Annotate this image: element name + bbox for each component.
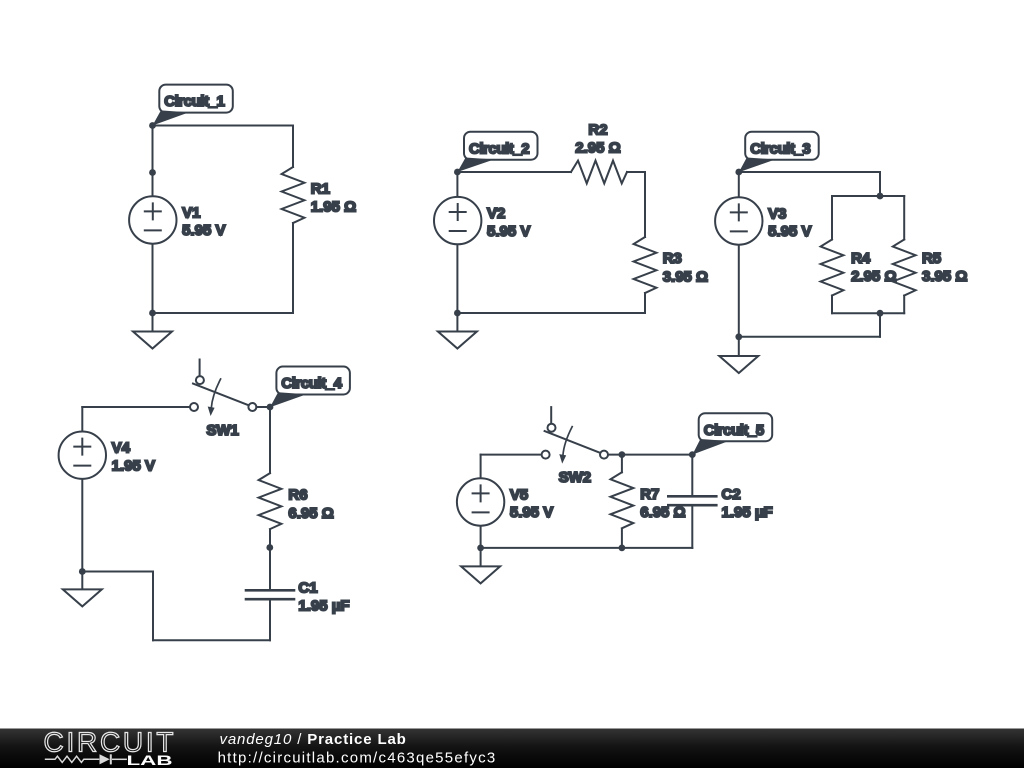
node A4 junction xyxy=(267,404,274,411)
wire right branch down xyxy=(644,172,646,237)
node label Circuit_4 xyxy=(270,367,350,408)
switch SW1 xyxy=(190,360,256,417)
wire left branch upper xyxy=(152,126,154,197)
junction xyxy=(735,333,742,340)
resistor R6 xyxy=(259,473,282,529)
junction xyxy=(689,451,696,458)
svg-text:http://circuitlab.com/c463qe55: http://circuitlab.com/c463qe55efyc3 xyxy=(218,749,497,766)
svg-text:5.95 V: 5.95 V xyxy=(487,223,530,240)
wire left branch upper c2 xyxy=(456,172,458,197)
voltage source V1 xyxy=(129,196,176,243)
voltage source V4 xyxy=(59,432,106,479)
wire V5 to switch xyxy=(481,454,542,456)
resistor R4 xyxy=(821,240,844,296)
junction xyxy=(149,310,156,317)
node label Circuit_5 xyxy=(692,413,772,454)
wire from parallel pair down xyxy=(879,313,881,337)
wire V5 bottom lead xyxy=(480,526,482,567)
svg-text:C1: C1 xyxy=(298,579,317,596)
svg-text:V1: V1 xyxy=(182,204,200,221)
svg-text:1.95 Ω: 1.95 Ω xyxy=(311,199,356,216)
wire return to V4 xyxy=(82,571,153,573)
svg-text:5.95 V: 5.95 V xyxy=(768,223,811,240)
switch SW2 xyxy=(542,407,608,464)
ground xyxy=(63,589,102,606)
resistor R3 xyxy=(634,237,657,293)
node A2 junction xyxy=(454,169,461,176)
svg-text:1.95 V: 1.95 V xyxy=(112,457,155,474)
svg-text:SW2: SW2 xyxy=(559,469,592,486)
svg-text:R1: R1 xyxy=(311,181,330,198)
wire feed down to parallel pair xyxy=(879,172,881,196)
svg-text:R7: R7 xyxy=(640,486,659,503)
svg-text:LAB: LAB xyxy=(127,752,173,768)
svg-text:C2: C2 xyxy=(722,486,741,503)
wire R4 bottom lead xyxy=(831,296,833,314)
svg-text:5.95 V: 5.95 V xyxy=(182,222,225,239)
wire R2 to corner xyxy=(627,171,645,173)
wire bottom rail circuit 4 xyxy=(153,639,270,641)
svg-text:1.95 µF: 1.95 µF xyxy=(722,504,773,521)
wire parallel top rail xyxy=(832,195,904,197)
voltage source V3 xyxy=(715,197,762,244)
svg-text:Circuit_4: Circuit_4 xyxy=(281,375,342,392)
wire switch to node xyxy=(256,406,270,408)
resistor R1 xyxy=(282,167,305,223)
svg-text:V2: V2 xyxy=(487,205,505,222)
svg-text:V5: V5 xyxy=(510,486,528,503)
node label Circuit_2 xyxy=(457,132,537,172)
wire switch to node c5 xyxy=(608,454,692,456)
wire left branch lower xyxy=(152,244,154,332)
svg-text:R5: R5 xyxy=(922,250,941,267)
node label Circuit_1 xyxy=(153,85,233,126)
junction xyxy=(477,545,484,552)
wire bottom rail circuit 3 xyxy=(739,336,880,338)
wire left branch lower c3 xyxy=(738,245,740,356)
wire left branch upper c3 xyxy=(738,172,740,197)
svg-text:Circuit_1: Circuit_1 xyxy=(164,93,224,110)
wire node down to R6 xyxy=(269,407,271,473)
ground xyxy=(133,332,172,349)
wire R6 to C1 xyxy=(269,529,271,590)
ground xyxy=(719,356,758,373)
ground xyxy=(438,332,477,349)
resistor R7 xyxy=(611,472,634,528)
svg-text:V3: V3 xyxy=(768,205,786,222)
svg-text:3.95 Ω: 3.95 Ω xyxy=(922,268,967,285)
resistor R2 xyxy=(571,161,627,184)
wire R5 bottom lead xyxy=(903,296,905,314)
wire R7 bottom lead xyxy=(621,529,623,548)
svg-text:6.95 Ω: 6.95 Ω xyxy=(288,505,333,522)
wire R7 top lead xyxy=(621,455,623,473)
wire V4 bottom lead xyxy=(81,479,83,590)
wire R1 bottom lead xyxy=(292,223,294,313)
node label Circuit_3 xyxy=(739,132,819,173)
wire top rail circuit 3 xyxy=(739,171,880,173)
node A3 junction xyxy=(735,169,742,176)
svg-text:R3: R3 xyxy=(663,250,682,267)
wire node to R2 xyxy=(457,171,571,173)
svg-text:SW1: SW1 xyxy=(206,422,239,439)
junction xyxy=(454,310,461,317)
svg-text:2.95 Ω: 2.95 Ω xyxy=(575,139,620,156)
wire left branch lower c2 xyxy=(456,244,458,331)
node A1 junction xyxy=(149,122,156,129)
junction xyxy=(149,169,156,176)
footer bar xyxy=(0,729,1024,769)
wire C2 top lead xyxy=(691,455,693,497)
voltage source V5 xyxy=(457,478,504,525)
svg-text:V4: V4 xyxy=(112,440,131,457)
wire C1 bottom lead xyxy=(269,599,271,640)
wire top rail circuit 1 xyxy=(153,125,294,127)
wire return riser xyxy=(152,572,154,641)
resistor R5 xyxy=(893,240,916,296)
svg-text:R6: R6 xyxy=(288,487,307,504)
wire R1 top lead xyxy=(292,126,294,168)
ground xyxy=(461,566,500,583)
svg-text:Circuit_2: Circuit_2 xyxy=(469,140,529,157)
wire bottom rail circuit 2 xyxy=(457,312,645,314)
wire R4 top lead xyxy=(831,196,833,240)
svg-text:R4: R4 xyxy=(851,250,871,267)
svg-text:Circuit_5: Circuit_5 xyxy=(704,422,764,439)
svg-text:3.95 Ω: 3.95 Ω xyxy=(663,269,708,286)
junction xyxy=(266,544,273,551)
wire parallel bottom rail xyxy=(832,312,904,314)
svg-text:5.95 V: 5.95 V xyxy=(510,504,553,521)
capacitor C1 xyxy=(246,590,294,599)
junction xyxy=(619,545,626,552)
svg-text:Circuit_3: Circuit_3 xyxy=(750,140,810,157)
svg-text:1.95 µF: 1.95 µF xyxy=(298,598,349,615)
wire V4 to switch xyxy=(82,406,190,408)
wire bottom rail circuit 1 xyxy=(153,312,294,314)
logo resistor-diode glyph xyxy=(45,754,127,764)
junction xyxy=(877,193,884,200)
wire R3 bottom lead xyxy=(644,293,646,313)
svg-text:vandeg10 / Practice Lab: vandeg10 / Practice Lab xyxy=(220,731,407,748)
svg-text:2.95 Ω: 2.95 Ω xyxy=(851,268,896,285)
wire V4 top lead xyxy=(81,407,83,432)
junction xyxy=(877,310,884,317)
wire R5 top lead xyxy=(903,196,905,240)
svg-text:R2: R2 xyxy=(588,121,607,138)
node A5 junction xyxy=(619,451,626,458)
wire bottom rail circuit 5 xyxy=(481,547,693,549)
wire C2 bottom lead xyxy=(691,505,693,548)
wire V5 top lead xyxy=(480,455,482,479)
junction xyxy=(79,568,86,575)
capacitor C2 xyxy=(668,496,716,505)
voltage source V2 xyxy=(434,197,481,244)
